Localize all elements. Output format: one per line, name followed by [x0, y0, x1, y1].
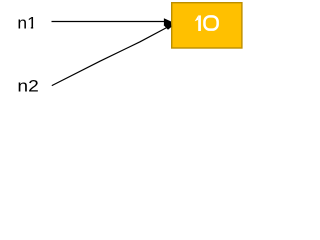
svg-text:n1: n1 [17, 14, 36, 32]
svg-text:n2: n2 [17, 77, 38, 95]
